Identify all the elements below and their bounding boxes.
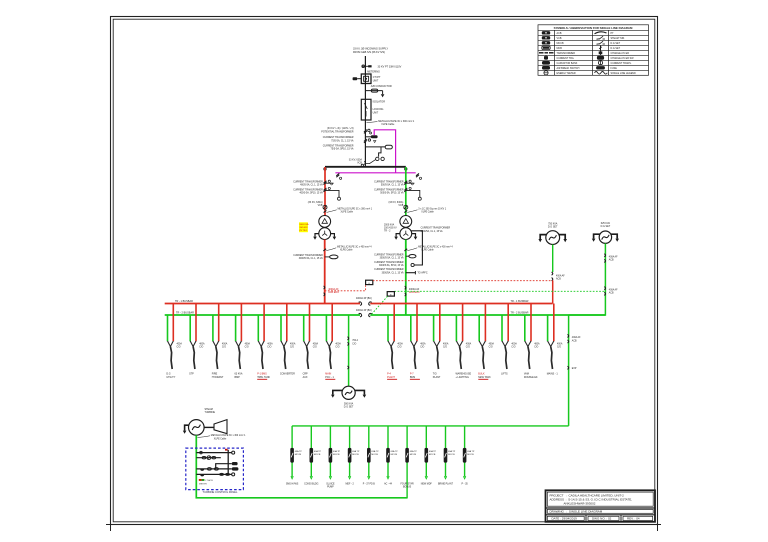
svg-text:CURRENT TRANSFORMER: CURRENT TRANSFORMER	[374, 268, 404, 271]
svg-text:C/O: C/O	[466, 347, 470, 349]
LT CT oval right	[406, 255, 416, 258]
feeder R2 changeover switch	[411, 341, 417, 347]
breaker mark on main line	[361, 161, 365, 166]
svg-text:3000/5A, CL 1, 15 VA: 3000/5A, CL 1, 15 VA	[421, 230, 443, 233]
feeder R4 changeover switch	[456, 341, 462, 347]
svg-text:MCCB: MCCB	[467, 454, 474, 456]
svg-text:TURBINE CONTROL PANEL: TURBINE CONTROL PANEL	[203, 490, 238, 494]
bottom feeder B7 wire	[406, 426, 408, 498]
svg-text:METER: METER	[199, 484, 207, 486]
feeder L1 load label	[166, 373, 175, 379]
svg-text:DOUBLE EF.: DOUBLE EF.	[524, 376, 538, 379]
node right junction	[405, 168, 407, 170]
title block text	[550, 493, 640, 520]
ACB TR2 switch	[405, 286, 406, 296]
svg-text:400A: 400A	[199, 343, 205, 346]
DG3 tick	[348, 366, 349, 369]
svg-text:400A AF: 400A AF	[609, 255, 618, 258]
generator DG1 earthing arms	[538, 235, 567, 243]
feeder L5 load label	[257, 373, 270, 380]
CT-PT unit label	[373, 76, 381, 82]
svg-text:MDF - 2: MDF - 2	[345, 483, 354, 485]
feeder L4 cable	[239, 347, 241, 370]
svg-text:400A: 400A	[290, 343, 296, 346]
feeder L2 cable	[193, 347, 195, 370]
svg-text:ANKLESHWAR-393002: ANKLESHWAR-393002	[564, 502, 596, 506]
svg-text:ACB EDO: ACB EDO	[328, 291, 339, 294]
svg-text:400A: 400A	[420, 343, 426, 346]
bottom feeder B10 load label	[462, 483, 469, 485]
svg-text:63A TP: 63A TP	[448, 450, 456, 453]
svg-text:METALLIC/XLPE 3C x 300 mm² 1: METALLIC/XLPE 3C x 300 mm² 1	[338, 208, 373, 211]
svg-text:ACB: ACB	[572, 339, 577, 342]
wire green branch lower	[405, 240, 407, 316]
svg-text:VCB: VCB	[357, 161, 362, 164]
feeder L1 green drop wire	[167, 315, 169, 341]
svg-text:BONUS: BONUS	[403, 487, 412, 489]
bottom feeder B6 load label	[384, 482, 393, 485]
bottom feeder B3 load label	[326, 483, 335, 488]
LT CT label left	[293, 254, 323, 260]
svg-text:C/O: C/O	[222, 347, 226, 349]
feeder L7 changeover switch	[304, 341, 310, 347]
MCCB B2 label	[314, 450, 322, 456]
svg-text:C/O: C/O	[557, 347, 561, 349]
CT tick and cable label right	[404, 209, 446, 214]
CT labels right branch	[374, 180, 404, 194]
green dashed interlock wire	[394, 290, 605, 292]
svg-text:CURRENT TRANSFORMER: CURRENT TRANSFORMER	[374, 261, 404, 264]
PT bar symbol	[365, 135, 377, 138]
svg-text:3 x 1C 300 Sq.mm 33 KV 1: 3 x 1C 300 Sq.mm 33 KV 1	[418, 209, 447, 211]
svg-text:400A: 400A	[534, 343, 540, 346]
busbar labels left	[175, 300, 194, 315]
svg-text:400A: 400A	[443, 343, 449, 346]
svg-text:MCCB: MCCB	[295, 454, 302, 456]
svg-text:2000 KVA: 2000 KVA	[384, 224, 395, 227]
potential transformer labels	[321, 127, 354, 133]
feeder L6 changeover label	[290, 343, 296, 349]
feeder R2 red drop wire	[416, 304, 418, 342]
bottom feeder B2 arrow	[310, 476, 312, 479]
svg-text:D.G SET: D.G SET	[611, 42, 621, 45]
feeder L5 changeover switch	[258, 341, 264, 347]
DG3 label	[344, 402, 354, 408]
magenta horizontal wire	[335, 172, 415, 174]
svg-text:CURRENT TRANSFORMER: CURRENT TRANSFORMER	[374, 188, 404, 191]
svg-text:MCCB: MCCB	[391, 454, 398, 456]
feeder R8 green drop wire	[547, 315, 549, 341]
wire DG2 drop green	[569, 243, 606, 315]
MCCB B9	[444, 448, 448, 463]
fuse tap with fuse F2	[365, 145, 392, 149]
generator steam turbine	[189, 420, 205, 436]
turbine earthing arm	[183, 425, 189, 434]
APFC tap wire	[406, 271, 416, 274]
wire EL tap green	[568, 315, 570, 426]
DG3 earthing arms	[331, 390, 366, 397]
feeder R7 changeover label	[534, 343, 540, 349]
MCCB B8 label	[429, 450, 437, 456]
svg-text:63A TP: 63A TP	[429, 450, 437, 453]
generator DG2 earthing arms	[592, 234, 619, 242]
feeder R3 load label	[433, 373, 441, 379]
svg-text:XLPE Cable: XLPE Cable	[421, 250, 434, 252]
panel vertical wire	[225, 449, 228, 475]
feeder R6 load label	[501, 373, 508, 376]
svg-text:3000/5-5A, CL 1, 15 VA: 3000/5-5A, CL 1, 15 VA	[299, 257, 323, 260]
feeder R3 changeover label	[443, 343, 449, 349]
svg-text:C/O: C/O	[313, 347, 317, 349]
panel line 4 wire	[196, 467, 238, 471]
svg-text:400A AF: 400A AF	[609, 288, 618, 291]
svg-text:FOUR STAR: FOUR STAR	[401, 482, 414, 485]
svg-text:METALLIC/XLPE 3C x 400 mm² 4: METALLIC/XLPE 3C x 400 mm² 4	[418, 246, 453, 249]
svg-text:CHANGE-OV ER: CHANGE-OV ER	[611, 52, 630, 55]
feeder L6 green drop wire	[280, 315, 282, 341]
svg-text:NEW MDF: NEW MDF	[421, 483, 433, 485]
isolator Q1 box	[361, 99, 371, 120]
svg-text:ISOLATOR: ISOLATOR	[373, 100, 386, 103]
feeder L6 cable	[284, 347, 286, 370]
svg-text:CONVERTER: CONVERTER	[280, 373, 295, 376]
EL tap switch label	[572, 336, 581, 342]
DG2 switch lower	[604, 287, 605, 296]
generator DG2 label	[601, 222, 611, 228]
feeder R3 changeover switch	[434, 341, 440, 347]
wire red branch lower	[324, 240, 326, 304]
svg-text:P - 37 PD B: P - 37 PD B	[363, 483, 376, 485]
EL tap switch	[568, 334, 569, 343]
feeder R5 cable	[482, 347, 484, 370]
MCCB B6	[386, 448, 390, 463]
feeder L8 changeover switch	[326, 341, 332, 347]
relay tap wires left	[325, 183, 341, 200]
svg-text:C/O: C/O	[199, 347, 203, 349]
svg-text:UNIT: UNIT	[373, 111, 379, 114]
feeder L8 red drop wire	[331, 304, 333, 342]
border corner tails	[106, 525, 661, 532]
svg-text:C/O: C/O	[267, 347, 271, 349]
wire turbine green main	[196, 435, 407, 498]
svg-text:MCCB: MCCB	[352, 454, 359, 456]
magenta CT right	[416, 173, 422, 179]
feeder L5 cable	[261, 347, 263, 370]
bottom feeder B6 arrow	[387, 476, 389, 479]
bottom feeder B4 arrow	[348, 476, 350, 479]
feeder R5 red drop wire	[484, 304, 486, 342]
feeder R7 red drop wire	[530, 304, 532, 342]
TR1 rating label highlighted	[299, 222, 309, 232]
feeder R4 green drop wire	[455, 315, 457, 341]
feeder L7 load label	[303, 373, 308, 379]
incoming supply label	[353, 47, 388, 54]
CT labels left branch	[293, 180, 323, 194]
feeder R8 cable	[551, 347, 553, 370]
green dashed slant wire	[371, 296, 387, 314]
panel line 3 wire	[216, 462, 238, 469]
title block	[546, 490, 656, 522]
feeder R1 green drop wire	[387, 315, 389, 341]
svg-text:CURRENT TRANSFORMER: CURRENT TRANSFORMER	[293, 180, 323, 183]
feeder L2 red drop wire	[195, 304, 197, 342]
feeder L1 changeover switch	[168, 341, 174, 347]
feeder L5 changeover label	[267, 343, 273, 349]
CT main labels 2	[323, 145, 354, 151]
svg-text:HYDRANT: HYDRANT	[212, 376, 224, 379]
CT tick and LT cable label left	[323, 246, 372, 252]
svg-text:XLPE Cable: XLPE Cable	[214, 438, 227, 440]
svg-text:C/O: C/O	[397, 347, 401, 349]
feeder R1 red drop wire	[393, 304, 395, 342]
svg-text:VCB: VCB	[398, 204, 403, 207]
ACB TR2 label	[409, 288, 420, 294]
feeder L7 green drop wire	[303, 315, 305, 341]
svg-text:63A TP: 63A TP	[391, 450, 399, 453]
svg-text:BRINE PLANT: BRINE PLANT	[438, 482, 454, 485]
svg-text:SYMBOLS / ABBREVIATION FOR SIN: SYMBOLS / ABBREVIATION FOR SINGLE LINE D…	[554, 26, 633, 30]
wire DG3 feeder green	[348, 315, 350, 386]
svg-text:C/O: C/O	[245, 347, 249, 349]
feeder R8 changeover label	[557, 343, 563, 349]
svg-text:400/5-5A, 5P10, 15 VA: 400/5-5A, 5P10, 15 VA	[299, 191, 323, 194]
MCCB B9 label	[448, 450, 456, 456]
MCCB B1 label	[295, 450, 303, 456]
feeder L4 load label	[235, 373, 243, 379]
svg-text:SINGLE LINE LEGEND: SINGLE LINE LEGEND	[611, 72, 637, 75]
feeder R8 red drop wire	[553, 304, 555, 342]
svg-text:CURRENT TRANSFORMER: CURRENT TRANSFORMER	[421, 227, 451, 230]
svg-text:DRAWING : SINGLE LINE DIAGR: DRAWING : SINGLE LINE DIAGRAM	[550, 510, 603, 514]
svg-text:AUX: AUX	[303, 376, 308, 379]
feeder L1 changeover label	[177, 343, 183, 349]
MCCB B7 label	[410, 450, 418, 456]
bottom feeder B5 wire	[368, 426, 370, 477]
feeder R3 red drop wire	[439, 304, 441, 342]
svg-text:POTENTIAL TRANSFORMER: POTENTIAL TRANSFORMER	[321, 130, 354, 133]
svg-text:C/O: C/O	[352, 343, 356, 345]
DG3 switch	[348, 337, 349, 346]
feeder R7 cable	[528, 347, 530, 370]
generator DG3	[342, 386, 355, 399]
transformer TR1	[319, 216, 331, 240]
MCCB B3 label	[333, 450, 341, 456]
busbar TR-1 red	[165, 303, 553, 305]
CT wedge 2 on main line	[364, 139, 376, 143]
MCCB B3	[329, 448, 333, 463]
svg-text:METALLIC/XLPE 3C x 300 mm² 1: METALLIC/XLPE 3C x 300 mm² 1	[211, 434, 246, 437]
EL tap tick	[568, 366, 577, 370]
bottom feeder B1 load label	[286, 483, 299, 485]
svg-text:ACB: ACB	[557, 32, 562, 35]
svg-text:LT ACB: LT ACB	[205, 479, 213, 482]
CT tick and LT cable label right	[404, 246, 453, 252]
feeder L8 changeover label	[335, 343, 341, 349]
feeder L2 changeover switch	[190, 341, 196, 347]
svg-text:400A: 400A	[222, 343, 228, 346]
feeder R4 red drop wire	[462, 304, 464, 342]
busbar labels right	[511, 300, 529, 315]
svg-text:ACB: ACB	[609, 292, 614, 295]
energy meter M1	[376, 157, 379, 160]
svg-text:1600 KVA: 1600 KVA	[299, 223, 309, 226]
feeder L7 cable	[307, 347, 309, 370]
LT CT oval left	[325, 255, 338, 259]
svg-text:NEW TANK: NEW TANK	[478, 376, 491, 379]
svg-text:33 KV PT 33KV/110V: 33 KV PT 33KV/110V	[378, 65, 402, 68]
bottom feeder B9 arrow	[444, 476, 446, 479]
svg-text:75/5-5A, 5P10, 15 VA: 75/5-5A, 5P10, 15 VA	[331, 148, 354, 151]
MCCB B5	[367, 448, 371, 463]
svg-text:3000/5A, CL 1, 15 VA: 3000/5A, CL 1, 15 VA	[382, 271, 404, 274]
svg-text:33/0.433 KV: 33/0.433 KV	[384, 228, 397, 230]
svg-text:400A: 400A	[557, 343, 563, 346]
svg-text:500/5-5A, 5P10, 15 VA: 500/5-5A, 5P10, 15 VA	[380, 191, 404, 194]
transformer TR2	[400, 216, 412, 240]
svg-text:63A TP: 63A TP	[467, 450, 475, 453]
svg-text:CURRENT TRANSFORMER: CURRENT TRANSFORMER	[293, 188, 323, 191]
svg-text:63A TP: 63A TP	[371, 450, 379, 453]
feeder L2 changeover label	[199, 343, 205, 349]
feeder R7 changeover switch	[525, 341, 531, 347]
feeder R7 load label	[524, 373, 538, 379]
svg-text:CAPACITOR BANK: CAPACITOR BANK	[557, 62, 578, 65]
turbine control panel dashed box	[186, 448, 244, 490]
svg-text:C/O: C/O	[534, 347, 538, 349]
svg-text:UNIT: UNIT	[373, 79, 379, 82]
feeder L2 load label	[189, 373, 194, 376]
TR1 earthing arms	[313, 234, 336, 240]
svg-text:63A TP: 63A TP	[314, 450, 322, 453]
feeder R5 changeover switch	[479, 341, 485, 347]
svg-text:63A TP: 63A TP	[352, 450, 360, 453]
feeder L2 green drop wire	[189, 315, 191, 341]
node left junction	[324, 168, 326, 170]
bottom feeder B8 load label	[421, 483, 433, 485]
feeder R2 green drop wire	[410, 315, 412, 341]
svg-text:400A: 400A	[267, 343, 273, 346]
feeder L7 changeover label	[313, 343, 319, 349]
MCCB B4 label	[352, 450, 360, 456]
svg-text:AC - 44: AC - 44	[384, 482, 393, 485]
border frame outer	[111, 17, 658, 525]
VCB symbol left	[323, 205, 327, 209]
feeder R6 red drop wire	[507, 304, 509, 342]
MCCB B2	[310, 448, 314, 463]
svg-text:SLUICE: SLUICE	[326, 483, 335, 485]
bottom feeder B4 wire	[349, 426, 351, 477]
TR2 earthing arms	[394, 234, 417, 240]
feeder R5 changeover label	[489, 343, 495, 349]
feeder L6 changeover switch	[281, 341, 287, 347]
svg-text:LIFTS: LIFTS	[501, 373, 508, 376]
bottom feeder B3 wire	[329, 426, 331, 477]
VCB label left	[308, 201, 323, 207]
svg-text:D.G SET: D.G SET	[611, 47, 621, 50]
feeder L8 green drop wire	[325, 315, 327, 341]
svg-text:500/5-5A, CL 1, 15 VA: 500/5-5A, CL 1, 15 VA	[381, 183, 404, 186]
bypass wire to meters	[379, 147, 381, 157]
feeder L5 red drop wire	[263, 304, 265, 342]
feeder R8 load label	[547, 373, 559, 376]
svg-text:C/O: C/O	[511, 347, 515, 349]
bus coupler red	[359, 302, 372, 306]
svg-text:XLPE Cable: XLPE Cable	[381, 123, 395, 126]
legend symbols and entries	[539, 31, 636, 75]
generator DG1 label	[548, 222, 558, 228]
feeder R5 load label	[478, 373, 491, 380]
svg-text:C/O: C/O	[290, 347, 294, 349]
wire green branch upper	[405, 167, 407, 216]
svg-text:C/O: C/O	[420, 347, 424, 349]
svg-text:63A TP: 63A TP	[333, 450, 341, 453]
feeder L3 changeover label	[222, 343, 228, 349]
feeder R1 changeover switch	[388, 341, 394, 347]
DG2 switch upper	[604, 254, 605, 263]
svg-text:XLPE Cable: XLPE Cable	[341, 212, 354, 214]
feeder L7 red drop wire	[309, 304, 311, 342]
feeder R1 load label	[387, 373, 397, 380]
svg-text:4000A 4P (BC): 4000A 4P (BC)	[356, 297, 372, 300]
svg-text:TR - 2: TR - 2	[384, 231, 391, 233]
svg-text:75/5-5A, CL 1, 15 VA: 75/5-5A, CL 1, 15 VA	[331, 139, 354, 142]
MCCB B5 label	[371, 450, 379, 456]
feeder L1 cable	[170, 347, 172, 370]
svg-text:63A TP: 63A TP	[295, 450, 303, 453]
svg-text:FUSE: FUSE	[611, 67, 618, 70]
MCCB B10 label	[467, 450, 475, 456]
svg-text:400/5-5A, CL 1, 15 VA: 400/5-5A, CL 1, 15 VA	[300, 183, 323, 186]
svg-text:TR - 2 BUSBAR: TR - 2 BUSBAR	[511, 312, 529, 315]
svg-text:D.G SET: D.G SET	[601, 225, 611, 228]
feeder L8 cable	[329, 347, 331, 370]
svg-text:400A AF: 400A AF	[556, 274, 565, 277]
ACB TR1 label	[328, 288, 339, 294]
svg-text:63A TP: 63A TP	[410, 450, 418, 453]
feeder L6 load label	[280, 373, 295, 376]
svg-text:400A: 400A	[177, 343, 183, 346]
svg-text:ACB: ACB	[556, 278, 561, 281]
feeder R6 green drop wire	[501, 315, 503, 341]
svg-text:CURRENT TRANSFORMER: CURRENT TRANSFORMER	[293, 254, 323, 257]
feeder L8 load label	[325, 373, 335, 380]
bottom feeder B5 load label	[363, 483, 376, 485]
DG3 switch label	[352, 339, 358, 345]
wire incoming main line	[364, 56, 366, 167]
svg-text:P - 35: P - 35	[462, 483, 469, 485]
svg-text:TR - 2 BUSBAR: TR - 2 BUSBAR	[176, 312, 194, 315]
svg-text:A/B CONDUCTOR: A/B CONDUCTOR	[371, 85, 392, 88]
svg-text:KV TR-1: KV TR-1	[299, 230, 308, 232]
border frame inner	[113, 19, 655, 522]
svg-text:BMP: BMP	[235, 376, 241, 379]
bus coupler green	[359, 313, 372, 317]
svg-text:400A: 400A	[489, 343, 495, 346]
svg-text:400A: 400A	[313, 343, 319, 346]
feeder L6 red drop wire	[286, 304, 288, 342]
svg-text:XLPE Cable: XLPE Cable	[421, 212, 434, 214]
bottom feeder B10 wire	[464, 426, 466, 477]
bottom feeder B5 arrow	[368, 476, 370, 479]
svg-text:C/O: C/O	[335, 347, 339, 349]
feeder R7 green drop wire	[524, 315, 526, 341]
bottom feeder B8 arrow	[425, 476, 427, 479]
svg-text:METALLIC/XLPE 3C x 400 mm² 4: METALLIC/XLPE 3C x 400 mm² 4	[337, 246, 372, 249]
feeder R5 green drop wire	[478, 315, 480, 341]
feeder L4 changeover switch	[236, 341, 242, 347]
CT wedges right branch	[404, 180, 413, 192]
feeder L3 cable	[216, 347, 218, 370]
